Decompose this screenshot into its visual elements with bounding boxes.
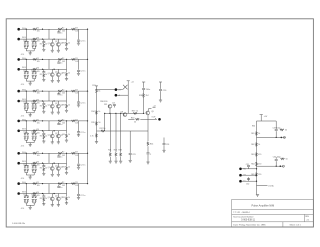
wire summing bus [87,29,89,183]
capacitor C31 [246,164,250,169]
svg-text:1k: 1k [98,111,100,113]
resistor R41 [108,150,111,161]
wire drop R43 [120,113,122,152]
wire branch2 [257,157,284,166]
resistor R62 [251,143,260,147]
svg-text:R42: R42 [114,150,117,152]
connector branch1 [281,136,286,138]
svg-text:R63: R63 [251,154,254,156]
svg-text:R62: R62 [251,144,254,146]
wire chain top rail [257,120,277,122]
junction rail4 [120,113,121,114]
channel block 3 [17,89,87,118]
resistor R61 [251,132,260,136]
svg-text:R44: R44 [150,144,153,146]
capacitor C34 [273,157,281,161]
channel block 6 [17,181,87,210]
junction bus tap 1 [87,29,88,30]
svg-text:470: 470 [258,154,261,156]
svg-text:R61: R61 [251,133,254,135]
svg-text:C23: C23 [132,154,135,156]
svg-text:C32: C32 [246,183,249,185]
svg-text:470: 470 [258,164,261,166]
svg-text:R34: R34 [91,111,94,113]
svg-text:2.1: 2.1 [307,220,311,222]
svg-text:C34 100p: C34 100p [273,157,281,159]
svg-text:C24: C24 [166,144,169,146]
svg-text:D11: D11 [104,104,107,106]
capacitor C24 [163,138,170,151]
svg-text:4.7k: 4.7k [90,136,93,138]
channel block 4 [17,119,87,148]
capacitor C26 [159,82,166,100]
junction bus tap 4 [87,120,88,121]
wire chain vertical [256,121,258,194]
resistor R39 [280,129,287,132]
svg-text:220: 220 [258,174,261,176]
svg-text:+5V: +5V [264,116,268,118]
svg-text:Size Document Number:: Size Document Number: [233,215,254,218]
svg-text:1-100-938-11b: 1-100-938-11b [12,223,26,225]
svg-text:50: 50 [285,130,287,132]
terminal T3 [239,180,256,183]
svg-text:C31: C31 [246,164,249,166]
svg-text:50: 50 [134,121,136,123]
junction tap 1 [256,168,257,169]
resistor R35b [90,134,97,138]
power flag +5V [260,115,268,121]
transistor Q9 [146,108,154,131]
channel block 5 [17,151,87,180]
svg-text:R31: R31 [92,85,95,87]
svg-text:50: 50 [98,122,100,124]
wire drop left [104,113,105,131]
transistor Q7 [104,104,112,113]
wire mid vertical [127,81,130,114]
svg-text:1k: 1k [258,133,260,135]
junction tap 2 [256,175,257,176]
diode D21 [123,85,128,90]
terminal T1 [239,167,256,170]
resistor R31 [92,85,100,93]
svg-text:R40: R40 [131,117,134,119]
svg-text:0.5mA: 0.5mA [268,184,274,187]
junction bus tap 6 [87,183,88,184]
wire branch1 [257,121,286,137]
resistor R43 [119,150,122,161]
svg-text:R37 1k: R37 1k [132,110,138,112]
svg-text:1k: 1k [98,91,100,93]
capacitor C33 [273,127,281,130]
ground C26 [159,100,162,102]
svg-text:R35: R35 [91,122,94,124]
junction bus tap 5 [87,153,88,154]
transistor Q8 [120,111,127,116]
resistor R35 [91,122,100,126]
junction branch1 [276,137,277,138]
svg-text:C33 100p: C33 100p [273,127,281,129]
resistor R44 [147,131,154,162]
channel block 2 [17,57,87,86]
output terminal [152,117,161,121]
junction tap 3 [256,181,257,182]
svg-text:R32 50: R32 50 [100,128,106,130]
svg-text:C21: C21 [112,103,115,105]
ground col96 [95,142,98,144]
capacitor C21 [112,103,116,108]
resistor R63 [251,153,261,157]
svg-text:+12: +12 [153,105,156,107]
wire output line [128,118,157,120]
power terminal +12V [115,88,121,91]
junction bus tap 3 [87,90,88,91]
wire stage rail [105,112,145,114]
resistor R65 [251,173,261,177]
wire power feeds [117,90,128,96]
svg-text:T.T.I.21 - 960914: T.T.I.21 - 960914 [233,212,250,214]
ground R44 [146,162,149,164]
resistor R45 [281,158,288,161]
resistor R38 [139,90,149,113]
junction rail2 [115,113,116,114]
resistor R42 [114,150,117,161]
svg-text:Q8: Q8 [120,111,123,113]
svg-text:REV: REV [305,216,309,218]
ground R41 [109,161,112,163]
wire drop R42 [115,113,117,152]
svg-text:R41: R41 [108,150,111,152]
power flag Q9 [153,105,156,107]
ground R42 [114,161,117,163]
ground C23 [129,160,132,162]
svg-text:C: C [150,154,152,156]
connector branch2 [280,165,285,167]
channel block 1 [17,27,87,56]
junction bus tap 2 [87,59,88,60]
power terminal -12V [115,94,120,97]
svg-text:Date: Friday, November 22, 1: Date: Friday, November 22, 1996 [233,224,266,227]
junction rail [109,113,110,114]
resistor R40 [131,117,139,123]
svg-text:C26: C26 [163,90,166,92]
svg-text:50: 50 [286,159,288,161]
capacitor C23 [129,131,136,160]
svg-text:Pulse Amplifier NIM: Pulse Amplifier NIM [252,204,275,208]
terminal T2 [239,174,256,177]
svg-text:Q9: Q9 [151,111,154,113]
svg-text:R36 330: R36 330 [100,101,107,103]
svg-text:R43: R43 [119,150,122,152]
ground R43 [119,161,122,163]
label 0.5mA [257,184,275,187]
capacitor C25 [142,82,150,91]
junction branch2 [276,166,277,167]
svg-text:R60: R60 [252,126,255,128]
svg-text:OUT: OUT [152,117,157,119]
junction rail3 [143,113,144,114]
wire bottom line [97,130,149,132]
wire drop R41 [109,113,111,152]
svg-text:1k: 1k [258,144,260,146]
svg-text:Sheet 1 of 1: Sheet 1 of 1 [290,224,302,227]
resistor R32 [100,128,106,132]
wire column feed [97,90,115,142]
svg-text:100n: 100n [146,89,150,91]
ground chain [256,195,259,197]
resistor R64 [251,162,261,166]
svg-text:5-900-938-11: 5-900-938-11 [241,220,255,222]
svg-text:R38: R38 [139,95,142,97]
svg-text:R64: R64 [251,164,254,166]
capacitor C32 [246,177,250,185]
title block frame [232,200,314,228]
svg-text:+12: +12 [131,81,134,83]
ground C24 [162,150,165,152]
resistor R37 [132,110,138,114]
svg-text:2k2: 2k2 [146,95,149,97]
resistor R34 [91,111,100,115]
